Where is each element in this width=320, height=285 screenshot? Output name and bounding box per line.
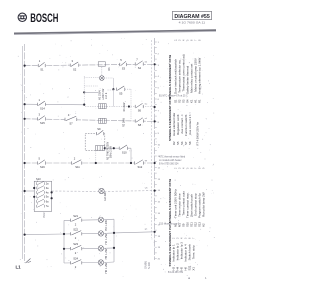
switch S1 door	[38, 64, 46, 66]
svg-text:B1 NTC sensor 4.7k at 25 C: B1 NTC sensor 4.7k at 25 C	[159, 95, 188, 98]
svg-text:CURRENT PATH: CURRENT PATH	[168, 179, 172, 202]
svg-text:R1 2kW: R1 2kW	[123, 102, 126, 112]
svg-text:7: 7	[136, 58, 138, 62]
svg-text:H6 1.2W: H6 1.2W	[104, 262, 108, 273]
svg-text:19: 19	[158, 247, 161, 249]
switch S6 contact	[135, 105, 144, 107]
switch S24 indicator	[70, 262, 82, 264]
wire branch H6 right	[104, 261, 114, 264]
junction node row B	[112, 88, 114, 90]
svg-text:2: 2	[75, 222, 77, 226]
svg-text:gn: gn	[145, 229, 148, 231]
svg-text:S7: S7	[69, 122, 73, 126]
svg-text:ai: ai	[188, 276, 191, 280]
svg-text:9: 9	[158, 133, 160, 135]
switch S2 selector	[70, 64, 79, 66]
svg-text:8: 8	[199, 167, 202, 169]
switch S8 contact	[135, 120, 144, 122]
svg-text:gy: gy	[145, 160, 148, 162]
svg-text:3: 3	[158, 65, 160, 67]
svg-text:S23: S23	[73, 242, 78, 246]
svg-text:CURRENT PATH: CURRENT PATH	[168, 222, 172, 245]
junction row F node b	[130, 162, 132, 164]
lamp H1	[99, 76, 104, 81]
svg-text:rd: rd	[145, 117, 148, 120]
switch S12 contact	[134, 162, 143, 164]
svg-text:2: 2	[74, 157, 76, 161]
junction rail/branch3	[63, 248, 65, 250]
vertical x113 upper	[112, 78, 114, 89]
svg-text:4a: 4a	[46, 191, 49, 194]
cluster left rail	[63, 220, 65, 263]
svg-text:10: 10	[158, 145, 161, 147]
junction S13 right a	[51, 191, 53, 193]
svg-text:5: 5	[39, 157, 41, 161]
lamp H2	[99, 188, 104, 193]
wire row H return	[114, 232, 155, 233]
diagram number box	[172, 11, 211, 19]
svg-text:X1: X1	[192, 267, 196, 271]
svg-text:2: 2	[75, 236, 77, 240]
svg-text:2a: 2a	[46, 183, 49, 186]
svg-text:2: 2	[158, 53, 160, 55]
vertical x131	[130, 89, 132, 120]
switch S5 regulator	[116, 88, 125, 90]
svg-text:S2: S2	[73, 67, 77, 71]
switch S22 indicator	[70, 233, 82, 235]
timer N1 enclosure	[85, 134, 105, 151]
junction rail/branch2	[63, 233, 65, 235]
right neutral bus	[154, 38, 156, 260]
svg-text:2: 2	[175, 167, 178, 169]
svg-text:5: 5	[37, 199, 39, 201]
junction bus/row D	[24, 118, 26, 120]
svg-text:CURRENT PATH: CURRENT PATH	[168, 55, 172, 78]
svg-text:S6: S6	[138, 109, 142, 113]
junction row F node a	[95, 162, 97, 164]
svg-text:6: 6	[158, 99, 160, 101]
svg-text:6: 6	[191, 167, 194, 169]
junction timer out	[104, 147, 106, 149]
svg-text:S13: S13	[36, 177, 41, 181]
svg-text:4: 4	[68, 113, 70, 117]
wire row H feed	[25, 233, 64, 236]
wire branch H3 left	[64, 219, 98, 222]
wire K1 to H1	[101, 67, 103, 75]
switch S23 indicator	[70, 247, 82, 249]
svg-text:4: 4	[183, 167, 186, 169]
svg-text:R2 1kW: R2 1kW	[122, 117, 125, 127]
svg-text:GN/BU: GN/BU	[144, 261, 148, 269]
svg-text:18: 18	[158, 236, 161, 238]
junction x85/row C	[83, 104, 85, 106]
svg-text:S16: S16	[40, 165, 45, 169]
svg-text:1: 1	[205, 276, 207, 280]
switch S7 switch	[65, 118, 77, 120]
svg-text:20: 20	[158, 259, 161, 261]
vertical x131 lower	[130, 148, 132, 163]
svg-text:S13 shown in pos 0: S13 shown in pos 0	[159, 224, 180, 226]
wire row F	[25, 162, 155, 164]
wire branch H5 right	[104, 247, 114, 249]
junction node row B left	[83, 91, 85, 93]
svg-text:3: 3	[179, 167, 182, 169]
svg-text:Run pilot lamp 2W: Run pilot lamp 2W	[202, 192, 206, 217]
vertical x85	[83, 76, 85, 107]
wire row D	[25, 119, 155, 122]
legend block 2	[168, 97, 192, 145]
switch S4 limiter	[135, 63, 144, 65]
svg-text:bu: bu	[145, 104, 148, 106]
svg-text:NTC thermal sensor fitted: NTC thermal sensor fitted	[159, 156, 186, 159]
svg-text:2: 2	[75, 251, 77, 255]
junction bus/row D right	[154, 120, 156, 122]
svg-text:S15: S15	[40, 121, 45, 125]
switch S11 start	[71, 162, 82, 164]
svg-text:H2 2W: H2 2W	[103, 192, 107, 201]
junction bus/row F right	[154, 162, 156, 164]
svg-text:4: 4	[181, 237, 184, 239]
svg-text:B 123 456 789: B 123 456 789	[168, 272, 184, 274]
svg-text:6a: 6a	[46, 200, 49, 203]
svg-text:3: 3	[72, 59, 74, 63]
element K1 relay contact	[98, 62, 105, 66]
wire row B solid	[84, 91, 98, 93]
junction bus/row A right	[154, 63, 156, 65]
junction bus/row C	[24, 103, 26, 105]
left supply bus L1	[24, 44, 26, 263]
svg-text:E-Nr 0730 300 524: E-Nr 0730 300 524	[159, 163, 179, 166]
svg-text:Aux contact 2: Aux contact 2	[188, 116, 192, 135]
svg-text:5: 5	[187, 167, 190, 169]
junction bus/row A	[24, 65, 26, 67]
svg-text:S4: S4	[138, 66, 142, 70]
svg-text:9: 9	[203, 167, 206, 169]
svg-text:S11: S11	[75, 165, 80, 169]
svg-text:SYMBOLS KEY: SYMBOLS KEY	[168, 201, 172, 223]
wire row A feed	[25, 64, 155, 65]
svg-text:3: 3	[179, 39, 182, 41]
svg-text:14: 14	[158, 190, 161, 192]
svg-text:8: 8	[158, 122, 160, 124]
Bosch logo emblem	[18, 13, 26, 21]
wire row C	[85, 106, 155, 108]
lamp H3	[98, 217, 103, 222]
svg-text:R1: R1	[198, 99, 202, 103]
wire H1 to node	[104, 77, 113, 79]
svg-text:RT 4 500W 230V htr: RT 4 500W 230V htr	[195, 122, 199, 146]
svg-text:50Hz 2.5W: 50Hz 2.5W	[110, 145, 113, 158]
svg-text:2: 2	[37, 185, 39, 187]
cluster right rail	[113, 219, 115, 262]
switch S9 timer contact	[96, 132, 104, 134]
svg-text:H2: H2	[202, 223, 206, 227]
svg-text:2: 2	[175, 39, 178, 41]
junction row C mid node	[128, 105, 130, 107]
svg-text:4: 4	[183, 39, 186, 41]
svg-text:5: 5	[120, 58, 122, 62]
svg-text:12: 12	[158, 167, 161, 169]
wire row B dash a	[84, 77, 99, 79]
junction bus/row H right	[154, 231, 156, 233]
wire row G mid	[52, 190, 99, 192]
svg-text:5: 5	[158, 88, 160, 90]
vertical x114	[112, 89, 114, 106]
svg-text:Term. strip: Term. strip	[192, 245, 196, 259]
svg-text:wh: wh	[145, 187, 149, 189]
svg-text:3: 3	[177, 237, 180, 239]
svg-text:13: 13	[158, 179, 161, 181]
wire branch H4 left	[64, 232, 98, 235]
svg-text:6: 6	[191, 39, 194, 41]
svg-text:5: 5	[185, 237, 188, 239]
svg-text:2: 2	[75, 265, 77, 269]
svg-text:S8: S8	[188, 141, 192, 145]
svg-text:N 230: N 230	[147, 262, 151, 269]
svg-text:7: 7	[193, 237, 196, 239]
svg-text:S8: S8	[138, 123, 142, 127]
svg-text:H5 1.2W: H5 1.2W	[104, 248, 108, 259]
svg-text:BOSCH: BOSCH	[30, 11, 58, 25]
junction S13 right b	[51, 197, 53, 199]
svg-text:S22: S22	[73, 227, 78, 231]
legend block 1	[168, 39, 201, 103]
wire branch H3 right	[104, 218, 114, 221]
current path ruler ticks	[155, 42, 161, 261]
svg-text:7: 7	[158, 110, 160, 112]
scan speckle texture	[18, 38, 215, 276]
junction row E node	[113, 147, 115, 149]
svg-text:S24: S24	[73, 256, 78, 260]
svg-text:S21: S21	[73, 214, 78, 218]
switch S15 pole	[37, 118, 45, 120]
vertical timer to row F	[95, 150, 97, 163]
legend block 3	[168, 167, 205, 227]
svg-text:S5: S5	[119, 91, 123, 95]
svg-text:E14 b: E14 b	[105, 92, 108, 99]
svg-text:bk: bk	[145, 62, 148, 64]
program switch S13 block	[34, 181, 51, 211]
svg-text:4: 4	[37, 194, 39, 196]
right bus second line	[150, 40, 152, 238]
svg-text:7: 7	[195, 39, 198, 41]
svg-text:H3 1.2W: H3 1.2W	[104, 220, 108, 231]
svg-text:16: 16	[158, 213, 161, 215]
svg-text:S10: S10	[122, 150, 127, 154]
svg-text:2: 2	[173, 237, 176, 239]
wire row C stub	[25, 103, 85, 106]
svg-text:on models with heater: on models with heater	[159, 159, 182, 162]
wire branch H6 left	[64, 262, 98, 265]
wire row G feed	[25, 190, 35, 192]
junction rrail/branch3	[113, 247, 115, 249]
svg-text:6: 6	[37, 204, 39, 206]
svg-text:6: 6	[189, 237, 192, 239]
lamp H6	[98, 260, 103, 265]
switch S21 indicator	[70, 219, 82, 221]
svg-text:7a: 7a	[46, 205, 49, 208]
svg-text:5a: 5a	[46, 196, 49, 199]
lamp H4	[98, 231, 103, 236]
switch S3 thermostat	[120, 63, 127, 65]
switch S10 contact	[119, 147, 128, 149]
svg-text:S9: S9	[97, 127, 101, 131]
svg-text:S1: S1	[40, 68, 44, 72]
element R2 element	[99, 118, 107, 123]
wire row B to x131	[125, 88, 131, 90]
wire row E	[105, 147, 131, 149]
svg-text:5: 5	[185, 114, 188, 116]
junction bus/row C right	[154, 106, 156, 108]
svg-text:1: 1	[39, 59, 41, 63]
legend block 4	[168, 222, 195, 270]
wire row G out	[104, 190, 154, 193]
junction bus/row H	[24, 234, 26, 236]
junction S13 left a	[33, 187, 35, 189]
svg-text:4: 4	[158, 76, 160, 78]
lamp H5	[98, 246, 103, 251]
svg-text:3: 3	[177, 114, 180, 116]
junction bus/row G	[24, 190, 26, 192]
element R1 element	[99, 104, 107, 109]
svg-text:H4 1.2W: H4 1.2W	[104, 233, 108, 244]
svg-text:L1: L1	[16, 265, 22, 270]
junction bus/row G right	[154, 190, 156, 192]
switch S16 pole	[37, 162, 45, 164]
svg-text:S12: S12	[138, 165, 143, 169]
junction bus/row F	[24, 162, 26, 164]
junction rrail/branch2	[113, 232, 115, 234]
L1 arrow mark	[26, 259, 32, 264]
element M1 timer motor	[95, 146, 104, 151]
svg-text:3: 3	[37, 190, 39, 192]
svg-text:1: 1	[158, 42, 160, 44]
svg-text:3: 3	[39, 113, 41, 117]
svg-text:3a: 3a	[46, 187, 49, 190]
svg-text:8: 8	[199, 39, 202, 41]
svg-text:S3: S3	[122, 67, 126, 71]
switch S14 pole	[37, 103, 45, 105]
header rule	[14, 30, 216, 33]
svg-text:S14: S14	[40, 107, 45, 111]
svg-text:K1: K1	[107, 67, 111, 71]
wire row B right	[108, 89, 114, 91]
junction S13 left b	[33, 196, 35, 198]
svg-text:DIAGRAM #55: DIAGRAM #55	[174, 14, 210, 20]
svg-text:4 1G 7600 GA 11: 4 1G 7600 GA 11	[179, 21, 206, 24]
wire branch H5 left	[64, 247, 98, 249]
svg-text:15: 15	[158, 202, 161, 204]
svg-text:PGM: PGM	[43, 213, 46, 218]
wire branch H4 right	[104, 232, 114, 235]
svg-text:1: 1	[39, 98, 41, 102]
svg-text:6: 6	[189, 114, 192, 116]
wire row B dash b	[84, 85, 98, 87]
